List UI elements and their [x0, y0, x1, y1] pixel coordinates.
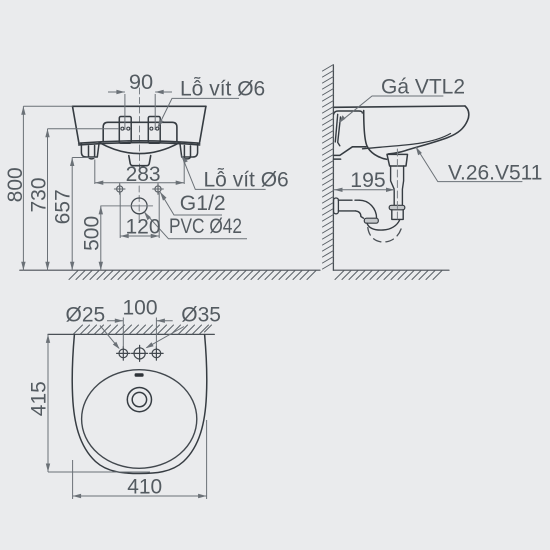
- floor hatching front: [69, 271, 316, 280]
- svg-text:730: 730: [27, 177, 50, 212]
- faucet holes: [117, 345, 164, 361]
- plan wall hatching: [74, 325, 212, 334]
- overflow slot: [135, 373, 144, 377]
- svg-text:195: 195: [350, 169, 385, 192]
- svg-text:410: 410: [127, 476, 162, 499]
- side wall line: [332, 66, 334, 271]
- basin outer rim (front): [73, 106, 206, 145]
- underside sweep: [388, 118, 468, 154]
- basin profile (side): [334, 106, 469, 159]
- svg-text:100: 100: [122, 297, 157, 320]
- tailpiece upper: [391, 166, 404, 205]
- leader O25: [100, 326, 119, 349]
- drain circles (plan): [127, 388, 151, 412]
- drain flange (side): [387, 154, 408, 166]
- dim 730 vertical: [47, 129, 49, 271]
- centerline front view: [138, 88, 140, 221]
- tailpiece lower: [392, 210, 403, 220]
- elbow inner: [355, 211, 363, 218]
- side floor line: [333, 269, 449, 271]
- leader Ga VTL2: [340, 96, 443, 122]
- bowl underside arc (front): [100, 143, 179, 154]
- leader top Lo vit: [158, 98, 239, 127]
- svg-text:415: 415: [27, 381, 50, 416]
- basin outline (plan): [72, 335, 207, 474]
- dim 283 extension lines: [94, 160, 96, 185]
- elbow outer: [359, 200, 376, 218]
- top rim side: [334, 106, 465, 107]
- dim 90 line: [108, 91, 125, 93]
- dim 657 vertical: [71, 158, 73, 271]
- plan wall line: [48, 333, 214, 335]
- leader V26: [416, 148, 522, 182]
- leader O35: [147, 327, 185, 348]
- wall bracket Ga VTL2 (side): [334, 111, 363, 146]
- horizontal waste pipe: [338, 200, 376, 218]
- svg-text:Ø35: Ø35: [181, 304, 221, 327]
- leader PVC: [144, 212, 247, 239]
- dim 120 extension lines: [119, 193, 121, 239]
- wall escutcheon flange: [334, 198, 339, 214]
- svg-text:90: 90: [129, 71, 153, 94]
- rear underside edge line: [363, 134, 451, 149]
- U-bend dashed outer arc: [368, 227, 402, 243]
- side wall hatching: [323, 65, 334, 270]
- dim 410: [72, 460, 74, 499]
- svg-text:Lỗ vít Ø6: Lỗ vít Ø6: [180, 78, 265, 101]
- right wing bracket (front): [180, 142, 198, 159]
- svg-text:120: 120: [125, 216, 160, 239]
- leader G1/2: [160, 192, 222, 215]
- dim 195: [334, 189, 395, 191]
- svg-text:800: 800: [4, 167, 27, 202]
- PVC horizontal centerline: [101, 205, 153, 207]
- PVC drain hole circle: [131, 198, 147, 214]
- svg-text:Gá VTL2: Gá VTL2: [381, 76, 465, 99]
- ext line bottom 415: [48, 471, 150, 473]
- dim 800 vertical: [22, 106, 24, 270]
- left mounting bracket (front): [119, 117, 131, 144]
- inner bowl ellipse (plan): [82, 370, 197, 469]
- inner backsplash rounded rect (front): [103, 122, 177, 141]
- svg-text:G1/2: G1/2: [180, 192, 226, 215]
- dim 100 extension lines: [122, 318, 124, 349]
- U-bend solid inner arc: [367, 220, 400, 230]
- dim 415 vertical: [47, 334, 49, 472]
- dim 90 extension lines: [124, 94, 126, 130]
- left bracket screw holes: [121, 127, 124, 130]
- dim 500 vertical: [100, 206, 102, 270]
- svg-text:Lỗ vít Ø6: Lỗ vít Ø6: [204, 169, 289, 192]
- bottom step: [334, 147, 366, 156]
- leader bottom Lo vit: [182, 156, 266, 190]
- svg-text:283: 283: [126, 163, 161, 186]
- svg-text:657: 657: [51, 189, 74, 224]
- svg-text:Ø25: Ø25: [66, 304, 106, 327]
- right bracket screw holes: [150, 127, 153, 130]
- back edge curve: [364, 111, 387, 160]
- svg-text:500: 500: [81, 216, 104, 251]
- dim 120 line: [120, 235, 159, 237]
- floor line front view: [20, 269, 320, 271]
- dim 283 line: [95, 182, 184, 184]
- tailpiece nut: [389, 205, 405, 210]
- left wing bracket (front): [81, 142, 99, 159]
- G1/2 supply holes below basin: [114, 184, 163, 195]
- right nose: [465, 106, 469, 118]
- drain stub (front): [129, 156, 151, 166]
- elbow nut: [364, 218, 378, 223]
- side floor hatching: [335, 271, 442, 280]
- right mounting bracket (front): [148, 117, 160, 144]
- dim 100 line: [107, 320, 123, 322]
- svg-text:PVC Ø42: PVC Ø42: [169, 215, 242, 238]
- trap centerline: [396, 149, 398, 222]
- svg-text:V.26.V511: V.26.V511: [448, 162, 542, 185]
